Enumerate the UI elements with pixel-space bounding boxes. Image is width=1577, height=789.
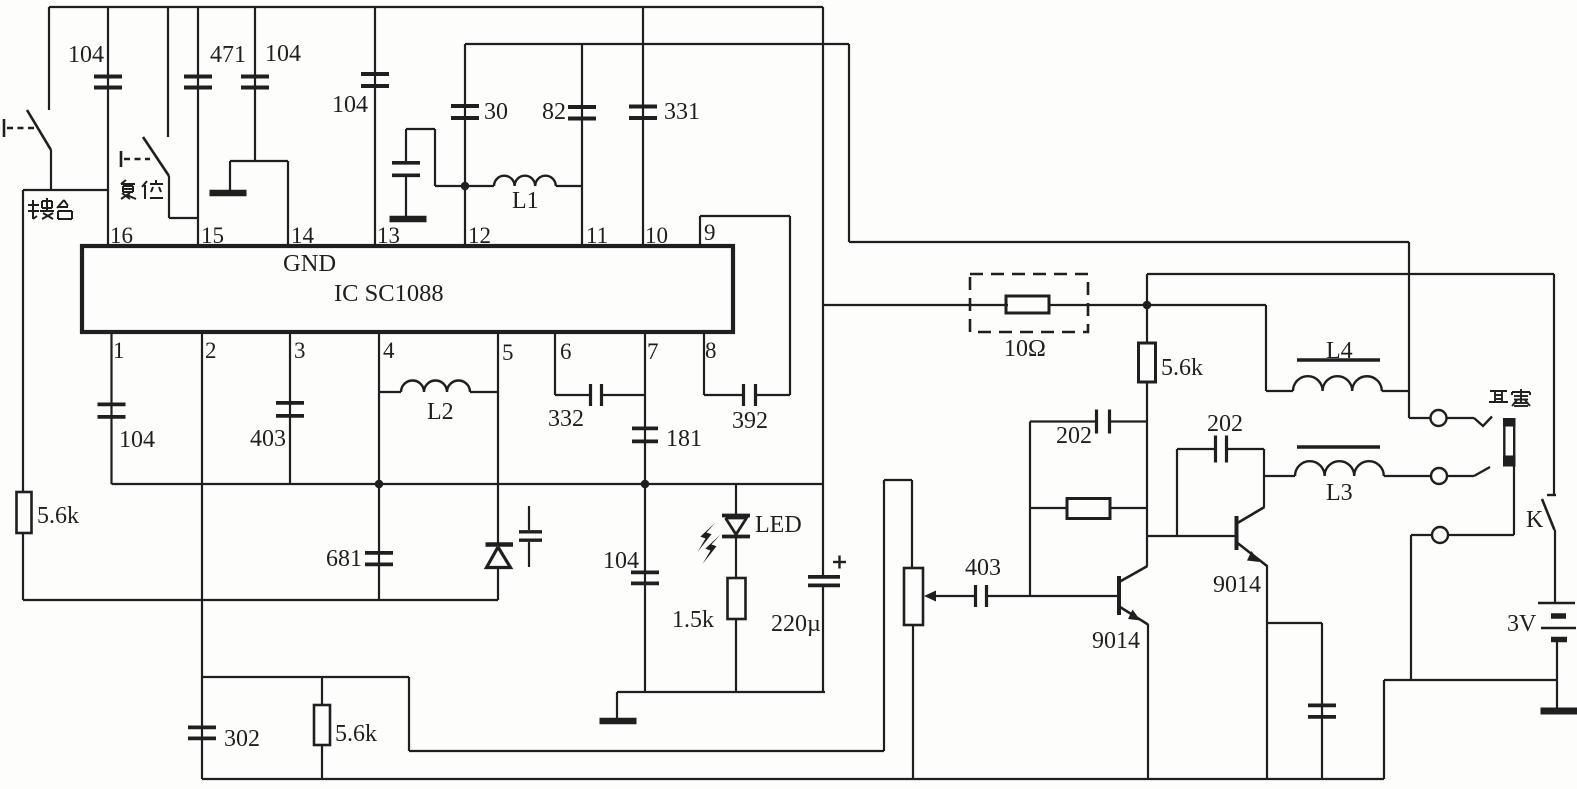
svg-text:82: 82 <box>542 99 566 125</box>
svg-text:8: 8 <box>705 338 717 363</box>
svg-text:3: 3 <box>294 338 306 363</box>
svg-text:5.6k: 5.6k <box>335 721 377 747</box>
svg-text:1: 1 <box>113 338 125 363</box>
svg-text:392: 392 <box>732 408 768 434</box>
svg-text:5: 5 <box>502 340 514 365</box>
svg-text:L2: L2 <box>427 399 454 425</box>
svg-text:104: 104 <box>603 548 639 574</box>
svg-text:1.5k: 1.5k <box>672 607 714 633</box>
svg-text:331: 331 <box>664 99 700 125</box>
svg-text:471: 471 <box>210 42 246 68</box>
svg-text:302: 302 <box>224 726 260 752</box>
svg-text:12: 12 <box>468 223 491 248</box>
svg-text:104: 104 <box>119 427 155 453</box>
svg-text:10: 10 <box>645 223 668 248</box>
svg-text:L3: L3 <box>1326 480 1353 506</box>
svg-text:L4: L4 <box>1326 338 1353 364</box>
svg-text:L1: L1 <box>512 188 539 214</box>
svg-text:9014: 9014 <box>1213 572 1261 598</box>
svg-text:6: 6 <box>560 339 572 364</box>
svg-text:2: 2 <box>205 338 217 363</box>
svg-text:16: 16 <box>110 223 133 248</box>
svg-text:14: 14 <box>291 223 315 248</box>
svg-text:LED: LED <box>755 512 802 538</box>
svg-text:104: 104 <box>265 41 301 67</box>
svg-text:9: 9 <box>704 220 716 245</box>
svg-text:181: 181 <box>666 426 702 452</box>
svg-text:403: 403 <box>250 426 286 452</box>
svg-text:104: 104 <box>332 92 368 118</box>
svg-text:13: 13 <box>377 223 400 248</box>
svg-text:IC SC1088: IC SC1088 <box>334 280 444 307</box>
svg-text:4: 4 <box>383 338 395 363</box>
svg-text:681: 681 <box>326 546 362 572</box>
svg-text:10Ω: 10Ω <box>1004 336 1046 362</box>
svg-text:9014: 9014 <box>1092 628 1140 654</box>
svg-text:11: 11 <box>586 223 608 248</box>
svg-text:220µ: 220µ <box>771 611 821 637</box>
svg-text:30: 30 <box>484 99 508 125</box>
svg-text:202: 202 <box>1207 411 1243 437</box>
svg-text:3V: 3V <box>1507 611 1537 637</box>
svg-text:5.6k: 5.6k <box>1161 355 1203 381</box>
svg-text:332: 332 <box>548 406 584 432</box>
svg-text:15: 15 <box>201 223 224 248</box>
svg-text:7: 7 <box>647 339 659 364</box>
svg-text:5.6k: 5.6k <box>37 503 79 529</box>
svg-text:K: K <box>1526 507 1544 533</box>
svg-text:104: 104 <box>68 42 104 68</box>
svg-text:GND: GND <box>283 250 336 277</box>
svg-text:403: 403 <box>965 555 1001 581</box>
svg-text:202: 202 <box>1056 423 1092 449</box>
